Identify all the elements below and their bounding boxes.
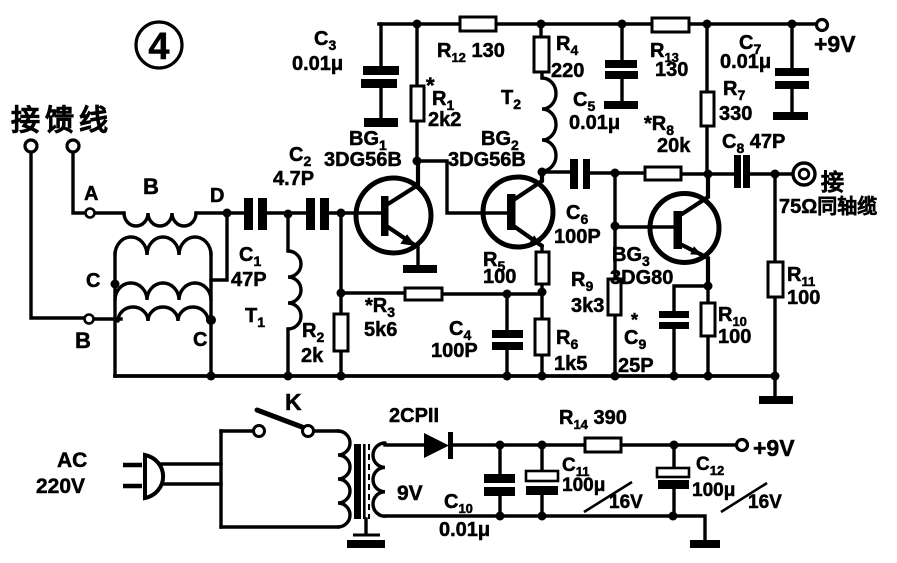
svg-text:3k3: 3k3 [571, 295, 604, 317]
svg-text:0.01μ: 0.01μ [720, 51, 771, 73]
svg-text:B: B [75, 328, 91, 353]
svg-text:C8 47P: C8 47P [722, 131, 785, 156]
svg-text:AC: AC [57, 449, 87, 472]
svg-text:0.01μ: 0.01μ [439, 519, 490, 541]
svg-text:2CPII: 2CPII [389, 405, 439, 427]
svg-text:0.01μ: 0.01μ [292, 53, 343, 75]
svg-text:A: A [84, 183, 98, 205]
svg-text:D: D [210, 185, 224, 207]
svg-text:16V: 16V [748, 492, 782, 513]
svg-text:4: 4 [148, 26, 169, 68]
svg-text:K: K [285, 389, 302, 415]
svg-text:4.7P: 4.7P [273, 168, 314, 190]
svg-text:100: 100 [718, 326, 751, 348]
svg-text:47P: 47P [231, 269, 267, 291]
svg-text:2k: 2k [301, 345, 324, 367]
svg-text:100μ: 100μ [692, 480, 735, 501]
svg-text:C: C [86, 270, 100, 292]
svg-text:3DG80: 3DG80 [610, 267, 673, 289]
svg-text:2k2: 2k2 [428, 109, 461, 131]
svg-text:R12 130: R12 130 [437, 40, 505, 65]
svg-text:75Ω同轴缆: 75Ω同轴缆 [779, 194, 877, 218]
svg-text:25P: 25P [618, 355, 654, 377]
svg-text:B: B [143, 174, 159, 199]
svg-text:3DG56B: 3DG56B [448, 149, 526, 171]
svg-text:100P: 100P [554, 226, 601, 248]
svg-text:接馈线: 接馈线 [11, 104, 113, 137]
svg-text:0.01μ: 0.01μ [569, 112, 620, 134]
svg-text:R14 390: R14 390 [559, 407, 627, 432]
svg-text:220V: 220V [36, 475, 85, 498]
svg-text:接: 接 [821, 169, 844, 195]
svg-text:1k5: 1k5 [554, 353, 587, 375]
svg-text:+9V: +9V [814, 31, 856, 57]
svg-text:100: 100 [483, 266, 516, 288]
svg-text:9V: 9V [397, 482, 423, 505]
svg-text:100P: 100P [431, 340, 478, 362]
svg-text:100μ: 100μ [562, 475, 605, 496]
svg-text:16V: 16V [609, 492, 643, 513]
svg-text:330: 330 [719, 103, 752, 125]
svg-text:20k: 20k [657, 135, 691, 157]
svg-text:5k6: 5k6 [364, 319, 397, 341]
svg-text:3DG56B: 3DG56B [324, 149, 402, 171]
svg-text:130: 130 [655, 59, 688, 81]
svg-text:220: 220 [551, 60, 584, 82]
svg-text:C: C [193, 329, 207, 351]
svg-text:100: 100 [787, 287, 820, 309]
svg-text:+9V: +9V [753, 435, 795, 461]
